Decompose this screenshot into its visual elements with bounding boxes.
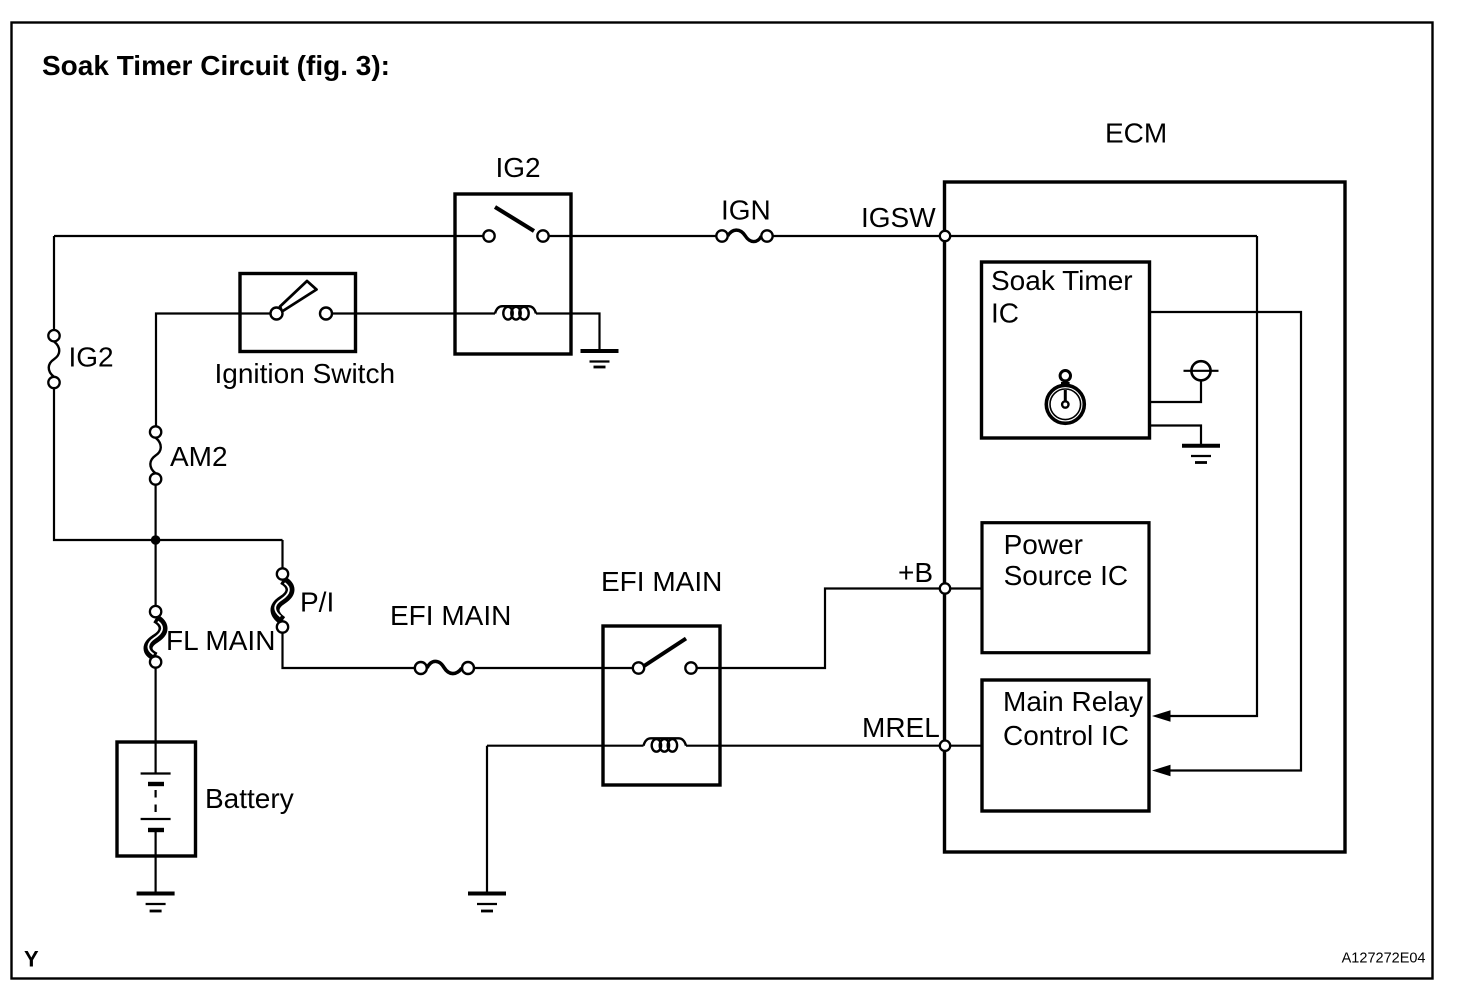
svg-text:P/I: P/I bbox=[300, 587, 334, 618]
fuse AM2 bbox=[150, 426, 161, 484]
wire P/I down and across to EFI MAIN fuse bbox=[283, 633, 415, 668]
ignition switch box bbox=[240, 274, 356, 352]
wire relay to +B node bbox=[697, 589, 940, 669]
relay EFI MAIN contact right bbox=[685, 662, 696, 673]
wire IG2 coil to ground bbox=[536, 314, 600, 350]
ground below battery bbox=[137, 894, 175, 912]
relay EFI MAIN switch blade bbox=[644, 639, 686, 667]
svg-text:+B: +B bbox=[898, 557, 933, 588]
relay EFI MAIN box bbox=[603, 626, 720, 785]
node +B on ECM edge bbox=[940, 583, 950, 593]
wire EFI MAIN fuse to relay bbox=[475, 667, 633, 669]
fusible link FL MAIN bbox=[148, 606, 163, 668]
node MREL on ECM edge bbox=[940, 741, 950, 751]
svg-text:IGN: IGN bbox=[721, 195, 771, 226]
fuse EFI MAIN bbox=[415, 661, 474, 674]
svg-text:Ignition Switch: Ignition Switch bbox=[215, 358, 396, 389]
svg-text:EFI MAIN: EFI MAIN bbox=[390, 600, 511, 631]
svg-text:A127272E04: A127272E04 bbox=[1342, 951, 1426, 967]
wire AM2 to junction bbox=[155, 485, 157, 606]
wire Soak Timer IC to ground bbox=[1150, 426, 1202, 445]
Power Source IC box bbox=[982, 523, 1149, 653]
node IGSW on ECM edge bbox=[940, 231, 950, 241]
fuse IG2 bbox=[48, 330, 59, 388]
junction node bbox=[151, 535, 161, 545]
ground below IG2 relay bbox=[581, 351, 619, 367]
relay IG2 box bbox=[455, 194, 571, 354]
ignition switch contact left bbox=[271, 308, 283, 320]
fusible link P/I bbox=[275, 568, 290, 632]
wire FL MAIN to battery bbox=[155, 668, 157, 742]
svg-text:MREL: MREL bbox=[862, 712, 940, 743]
wire top-left vertical down to IG2 fuse bbox=[53, 236, 55, 330]
svg-text:Source IC: Source IC bbox=[1004, 560, 1129, 591]
wire vertical IGSW branch bbox=[1170, 236, 1257, 716]
wire IGN fuse to IGSW node bbox=[773, 235, 945, 237]
ground inside ECM bbox=[1182, 446, 1220, 463]
arrowhead into Main Relay Control IC lower bbox=[1152, 765, 1171, 777]
wire MREL node to Main Relay Control IC bbox=[950, 745, 982, 747]
relay IG2 switch blade bbox=[495, 207, 534, 231]
fuse IGN bbox=[716, 230, 772, 242]
svg-text:IC: IC bbox=[991, 298, 1019, 329]
svg-text:Battery: Battery bbox=[205, 783, 294, 814]
svg-text:Main Relay: Main Relay bbox=[1003, 686, 1143, 717]
ground below EFI MAIN wire bbox=[468, 894, 506, 912]
battery internals bbox=[141, 742, 171, 892]
svg-text:EFI MAIN: EFI MAIN bbox=[601, 566, 722, 597]
wire down to ground from MREL line bbox=[486, 746, 488, 892]
svg-text:Y: Y bbox=[24, 947, 39, 972]
svg-text:IGSW: IGSW bbox=[861, 202, 936, 233]
wire ignition switch to IG2 coil bbox=[332, 312, 495, 314]
svg-text:FL MAIN: FL MAIN bbox=[166, 625, 275, 656]
wire ignition switch left branch bbox=[156, 314, 271, 427]
relay IG2 contact right bbox=[537, 230, 548, 241]
svg-text:Soak Timer Circuit (fig. 3):: Soak Timer Circuit (fig. 3): bbox=[42, 50, 390, 81]
stopwatch icon bbox=[1046, 371, 1084, 424]
wire junction to P/I bbox=[281, 540, 283, 568]
svg-text:Control IC: Control IC bbox=[1003, 720, 1129, 751]
arrowhead into Main Relay Control IC upper bbox=[1152, 710, 1171, 722]
svg-text:AM2: AM2 bbox=[170, 441, 228, 472]
wire +B node to Power Source IC bbox=[950, 587, 982, 589]
wire top main horizontal left segment bbox=[54, 235, 483, 237]
relay IG2 contact left bbox=[483, 230, 494, 241]
wire IG2 fuse down to corner and across bbox=[54, 388, 283, 540]
wire IGSW node into ECM bbox=[950, 235, 1257, 237]
Main Relay Control IC box bbox=[982, 680, 1149, 811]
svg-text:Soak Timer: Soak Timer bbox=[991, 265, 1133, 296]
wire Soak Timer IC output right bbox=[1150, 312, 1302, 771]
wire relay to IGN fuse bbox=[549, 235, 717, 237]
ignition switch lever bbox=[280, 281, 317, 312]
svg-text:IG2: IG2 bbox=[496, 152, 541, 183]
svg-text:Power: Power bbox=[1004, 529, 1083, 560]
ignition switch contact right bbox=[320, 308, 332, 320]
relay EFI MAIN contact left bbox=[633, 662, 644, 673]
battery box bbox=[117, 742, 196, 856]
relay IG2 coil bbox=[495, 306, 536, 319]
svg-text:ECM: ECM bbox=[1105, 118, 1167, 149]
wire MREL left of coil bbox=[487, 745, 644, 747]
ECM box bbox=[945, 182, 1346, 852]
svg-text:IG2: IG2 bbox=[69, 342, 114, 373]
wire coil to MREL node bbox=[686, 745, 940, 747]
node symbol circle with bar bbox=[1184, 361, 1219, 380]
relay EFI MAIN coil bbox=[644, 738, 687, 751]
Soak Timer IC box bbox=[982, 262, 1150, 438]
wire Soak Timer IC to node symbol bbox=[1150, 381, 1202, 403]
